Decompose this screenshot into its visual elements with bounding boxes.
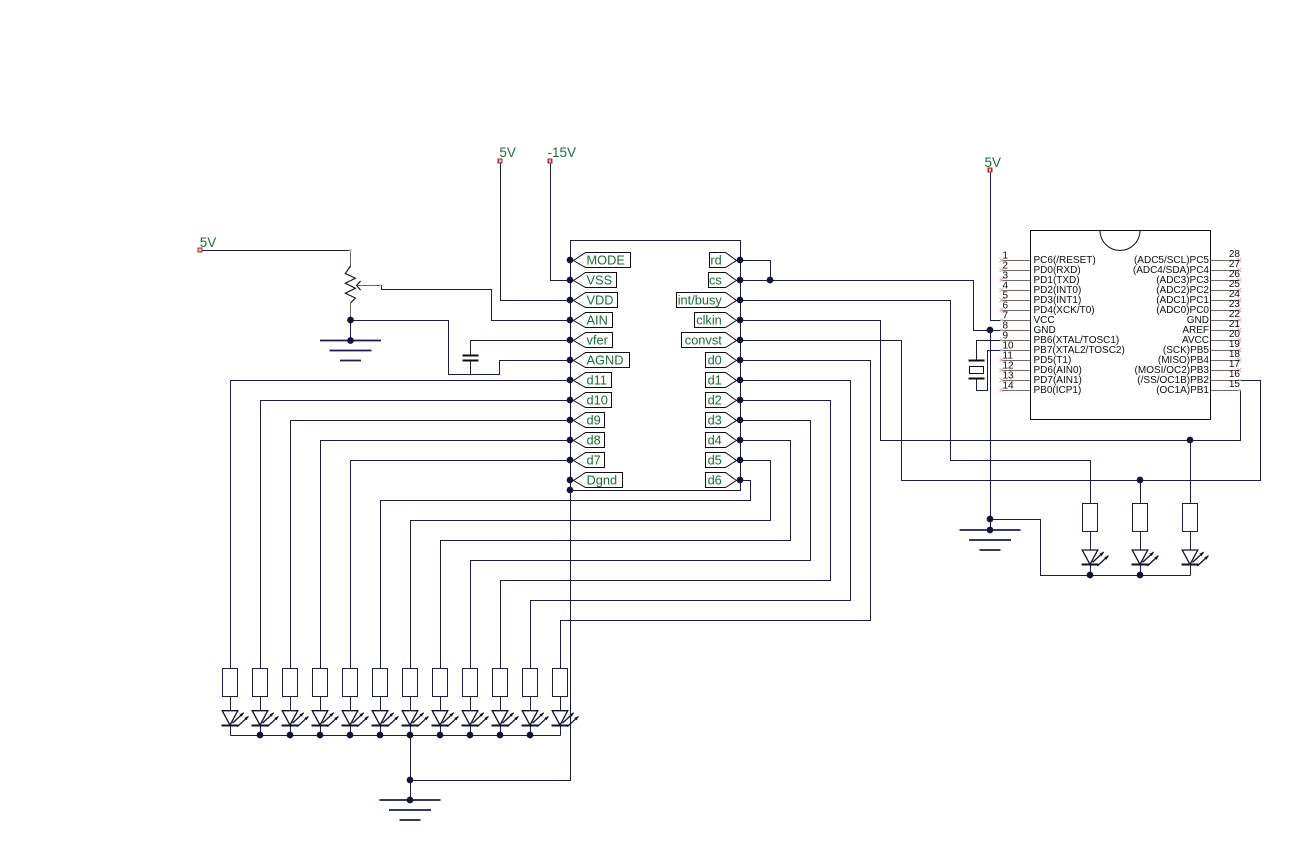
svg-text:d0: d0 <box>708 352 722 367</box>
svg-text:d2: d2 <box>708 392 722 407</box>
svg-text:rd: rd <box>710 252 721 267</box>
svg-text:5V: 5V <box>499 145 516 160</box>
svg-text:AIN: AIN <box>587 312 608 327</box>
svg-text:clkin: clkin <box>696 312 722 327</box>
svg-text:Dgnd: Dgnd <box>587 472 618 487</box>
svg-text:AGND: AGND <box>587 352 624 367</box>
svg-text:PB0(ICP1): PB0(ICP1) <box>1034 385 1082 396</box>
svg-text:d6: d6 <box>708 472 722 487</box>
svg-text:5V: 5V <box>985 155 1002 170</box>
svg-text:d3: d3 <box>708 412 722 427</box>
svg-text:d11: d11 <box>587 372 607 387</box>
svg-text:d5: d5 <box>708 452 722 467</box>
svg-text:d1: d1 <box>708 372 722 387</box>
svg-text:d9: d9 <box>587 412 601 427</box>
svg-text:15: 15 <box>1229 379 1241 390</box>
svg-text:(OC1A)PB1: (OC1A)PB1 <box>1156 385 1209 396</box>
svg-text:d7: d7 <box>587 452 601 467</box>
svg-text:vfer: vfer <box>587 332 609 347</box>
svg-text:-15V: -15V <box>548 145 577 160</box>
svg-text:VDD: VDD <box>587 292 614 307</box>
svg-text:convst: convst <box>685 332 722 347</box>
svg-text:cs: cs <box>709 272 722 287</box>
svg-text:5V: 5V <box>200 235 217 250</box>
svg-text:MODE: MODE <box>587 252 625 267</box>
svg-text:14: 14 <box>1003 380 1015 391</box>
svg-text:d4: d4 <box>708 432 722 447</box>
svg-text:d8: d8 <box>587 432 601 447</box>
svg-text:d10: d10 <box>587 392 608 407</box>
svg-text:int/busy: int/busy <box>678 292 723 307</box>
svg-text:VSS: VSS <box>587 272 613 287</box>
